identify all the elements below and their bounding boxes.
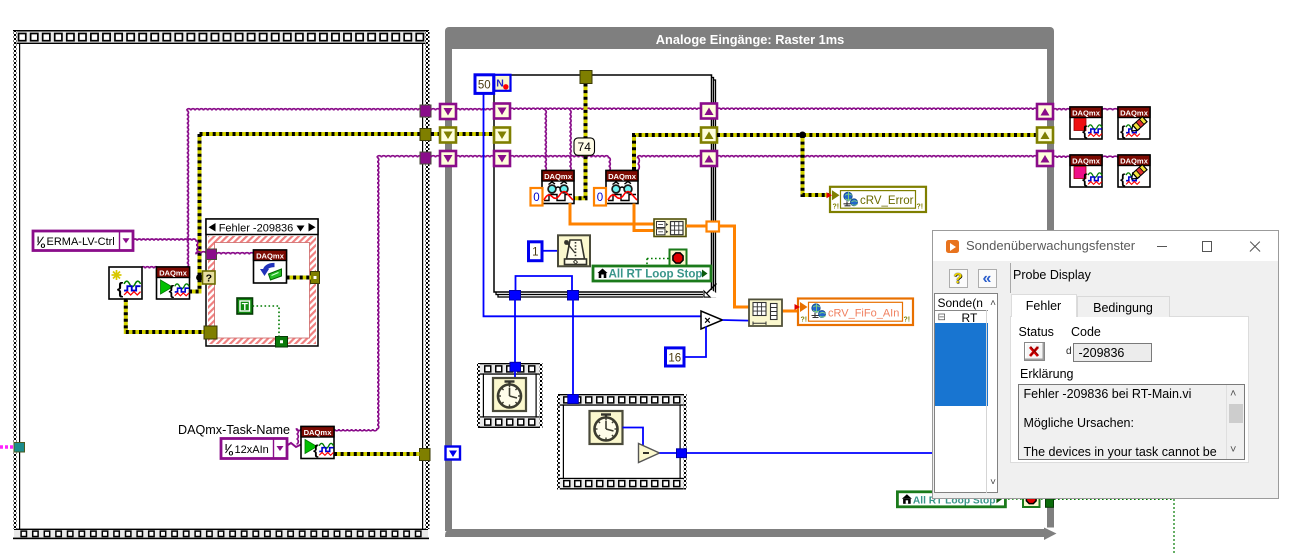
svg-text:DAQmx-Task-Name: DAQmx-Task-Name <box>178 423 290 437</box>
svg-text:×: × <box>704 315 710 327</box>
svg-text:?!: ?! <box>833 204 840 211</box>
svg-text:16: 16 <box>668 352 681 364</box>
svg-text:0: 0 <box>597 192 603 204</box>
svg-text:DAQmx: DAQmx <box>544 172 573 181</box>
svg-text:?!: ?! <box>801 317 808 324</box>
svg-text:All RT Loop Stop: All RT Loop Stop <box>609 268 703 281</box>
svg-text:Fehler -209836: Fehler -209836 <box>219 222 294 234</box>
svg-text:Analoge Eingänge: Raster 1ms: Analoge Eingänge: Raster 1ms <box>656 32 844 47</box>
svg-text:?!: ?! <box>917 204 924 211</box>
svg-text:DAQmx: DAQmx <box>608 172 637 181</box>
svg-text:{: { <box>313 442 319 458</box>
svg-text:{: { <box>1120 123 1126 138</box>
svg-text:74: 74 <box>578 140 592 154</box>
svg-text:T: T <box>242 302 248 313</box>
svg-text:{: { <box>1082 123 1088 138</box>
svg-text:{: { <box>1120 171 1126 186</box>
svg-text:cRV_Error: cRV_Error <box>860 195 914 207</box>
svg-text:ERMA-LV-Ctrl: ERMA-LV-Ctrl <box>47 236 115 248</box>
svg-text:{: { <box>169 283 175 299</box>
svg-text:o: o <box>229 449 234 458</box>
svg-text:DAQmx: DAQmx <box>1072 157 1101 166</box>
svg-text:o: o <box>41 241 46 250</box>
svg-text:DAQmx: DAQmx <box>1120 109 1149 118</box>
svg-text:?: ? <box>206 273 212 285</box>
svg-text:{: { <box>1082 171 1088 186</box>
svg-text:cRV_FiFo_AIn: cRV_FiFo_AIn <box>828 308 899 320</box>
svg-text:{: { <box>117 280 124 298</box>
svg-text:0: 0 <box>533 192 539 204</box>
svg-text:DAQmx: DAQmx <box>159 269 188 278</box>
svg-text:50: 50 <box>478 80 491 92</box>
svg-text:DAQmx: DAQmx <box>1120 157 1149 166</box>
svg-text:DAQmx: DAQmx <box>304 428 333 437</box>
svg-text:N: N <box>496 78 504 90</box>
svg-text:12xAIn: 12xAIn <box>235 444 269 456</box>
svg-text:1: 1 <box>532 247 538 259</box>
svg-text:DAQmx: DAQmx <box>1072 109 1101 118</box>
svg-text:DAQmx: DAQmx <box>256 252 285 261</box>
svg-text:?!: ?! <box>904 317 911 324</box>
